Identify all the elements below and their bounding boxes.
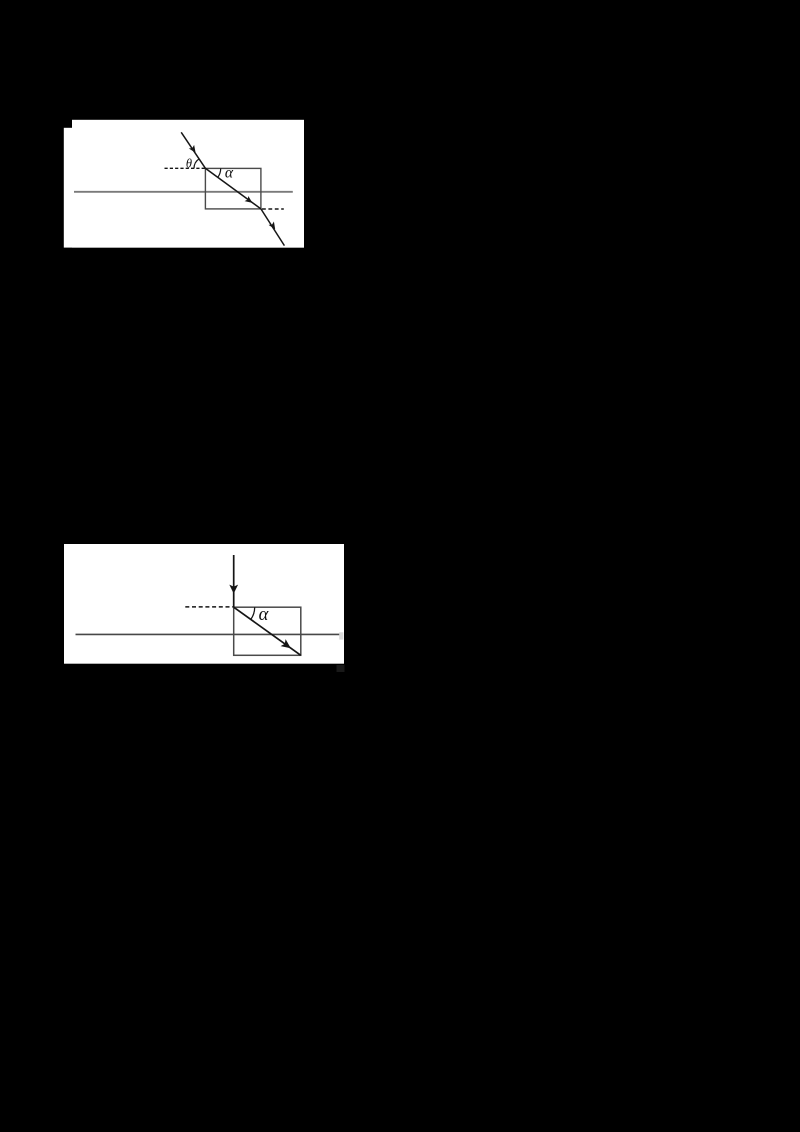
svg-text:α: α: [259, 605, 270, 625]
svg-text:α: α: [225, 164, 234, 181]
svg-text:θ: θ: [186, 157, 192, 171]
